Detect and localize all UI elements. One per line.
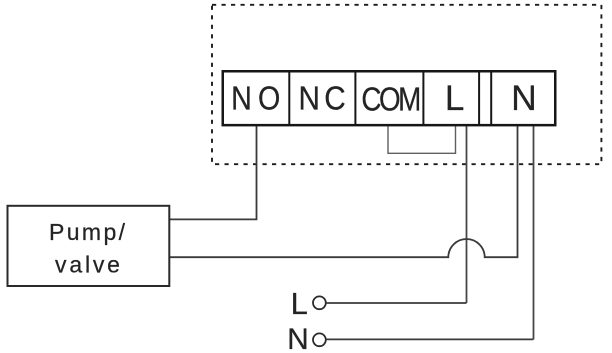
supply terminal circle N — [313, 333, 326, 346]
terminal divider NO|NC — [288, 71, 290, 125]
dashed enclosure (thermostat outline) — [212, 5, 601, 164]
svg-text:N: N — [287, 323, 309, 353]
svg-text:NC: NC — [298, 80, 350, 117]
terminal divider spacer|N — [490, 71, 492, 125]
wire N supply line — [327, 338, 534, 340]
wire NO to Pump/valve — [169, 122, 257, 219]
wire L terminal down to L supply line — [466, 122, 468, 303]
svg-text:L: L — [291, 286, 308, 321]
svg-text:NO: NO — [231, 80, 286, 117]
svg-text:N: N — [511, 78, 537, 118]
wire N terminal down to N supply line — [533, 122, 535, 339]
wire L supply line — [327, 302, 467, 304]
jumper wire COM-L — [388, 122, 456, 153]
svg-text:L: L — [445, 79, 464, 118]
svg-text:valve: valve — [55, 252, 123, 278]
terminal divider COM|L — [422, 71, 424, 125]
wire Pump/valve to N terminal with crossover arc — [169, 122, 518, 257]
terminal divider L|spacer — [478, 71, 480, 125]
Pump/valve box — [8, 206, 170, 286]
terminal block — [223, 71, 556, 125]
terminal divider NC|COM — [354, 71, 356, 125]
svg-text:Pump/: Pump/ — [49, 219, 127, 245]
svg-text:COM: COM — [361, 80, 419, 118]
supply terminal circle L — [313, 296, 326, 309]
